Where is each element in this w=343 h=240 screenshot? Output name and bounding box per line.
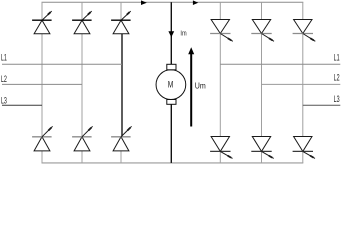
thyristor V4 (left bottom, leg 1): [32, 126, 53, 151]
thyristor V12 (right bottom, leg 3): [293, 137, 315, 159]
thyristor V6 (left bottom, leg 3): [111, 126, 132, 151]
wire left leg 3 (middle, dark): [121, 34, 123, 137]
wire L1 right: [220, 63, 340, 65]
wire L2 right: [262, 83, 341, 85]
wire left leg 3 (lower): [120, 151, 122, 163]
wire L1 left: [2, 63, 122, 65]
thyristor V7 (right top, leg 1): [210, 20, 233, 42]
wire left leg 2: [81, 2, 83, 163]
svg-text:L2: L2: [1, 74, 7, 84]
thyristor V9 (right top, leg 3): [293, 20, 316, 42]
arrow Um: [188, 47, 194, 126]
arrow Id right on top bus: [193, 0, 198, 5]
arrow Id left on top bus: [141, 0, 147, 5]
wire left leg 3 (upper): [120, 2, 122, 20]
wire L3 right: [303, 104, 341, 106]
svg-text:L2: L2: [334, 73, 340, 83]
wire L2 left: [2, 83, 82, 85]
motor M armature: [156, 64, 186, 104]
svg-text:L3: L3: [1, 96, 7, 106]
svg-text:M: M: [168, 79, 174, 90]
svg-text:L3: L3: [334, 94, 340, 104]
wire motor top (stem): [170, 2, 172, 64]
thyristor V8 (right top, leg 2): [251, 20, 274, 42]
thyristor V2 (left top, leg 2): [72, 11, 92, 34]
thyristor V1 (left top, leg 1): [32, 11, 52, 34]
wire right leg 3: [302, 2, 304, 163]
thyristor V3 (left top, leg 3): [111, 11, 131, 34]
wire top DC bus: [42, 1, 304, 3]
wire motor bottom: [170, 104, 172, 163]
wire L3 left: [2, 104, 42, 106]
wire bottom DC bus: [42, 162, 304, 164]
wire right leg 2: [261, 2, 263, 163]
wire left leg 1: [41, 2, 43, 163]
arrow Im on stem: [168, 31, 174, 37]
svg-text:Im: Im: [180, 31, 186, 38]
svg-text:L1: L1: [1, 53, 7, 63]
thyristor V10 (right bottom, leg 1): [210, 137, 232, 159]
wire right leg 1: [219, 2, 221, 163]
svg-text:L1: L1: [334, 52, 340, 62]
svg-text:Um: Um: [195, 80, 206, 90]
thyristor V11 (right bottom, leg 2): [251, 137, 273, 159]
thyristor V5 (left bottom, leg 2): [72, 126, 93, 151]
